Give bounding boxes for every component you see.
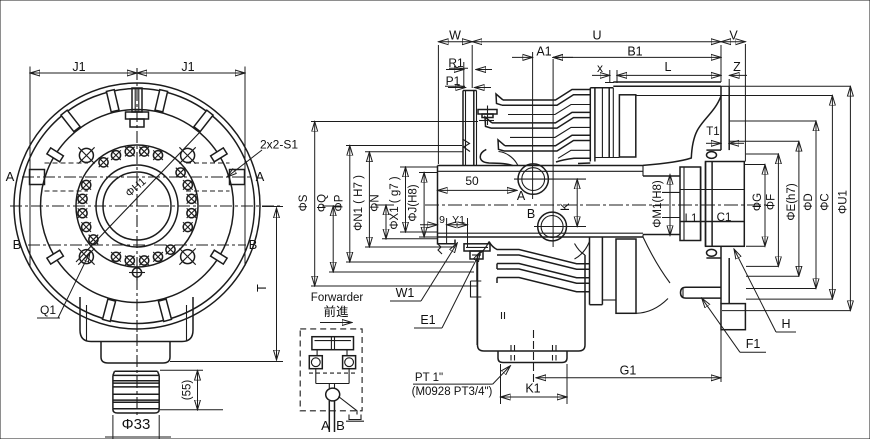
- leader H: [734, 249, 796, 332]
- leader F1: [702, 298, 766, 352]
- lower plate 3: [497, 278, 590, 292]
- J1 extension lines: [30, 67, 245, 267]
- dimension W: [438, 28, 472, 42]
- pin F1: [681, 287, 722, 298]
- pedestal inner walls: [87, 305, 187, 342]
- dimension T1: [706, 126, 744, 143]
- shaft centerline: [136, 334, 138, 418]
- dimension PhiN1 ( H7 ): [353, 152, 463, 247]
- svg-text:前進: 前進: [323, 304, 349, 319]
- svg-text:ΦG: ΦG: [752, 193, 764, 211]
- dimension PhiN: [370, 194, 438, 239]
- dimension PhiF: [746, 154, 778, 266]
- label PhiH1: [123, 176, 148, 200]
- dimension 50: [438, 174, 518, 190]
- dimension Z: [729, 60, 747, 75]
- nose boss 1: [480, 149, 512, 165]
- svg-text:A1: A1: [536, 44, 551, 58]
- svg-text:W1: W1: [396, 286, 415, 300]
- section line B-B: [28, 244, 246, 246]
- bracket plate lower: [721, 247, 729, 304]
- cylinder stems: [317, 350, 347, 356]
- dimension V: [721, 28, 745, 42]
- svg-text:J1: J1: [72, 60, 85, 74]
- port centerlines: [514, 59, 586, 247]
- svg-text:W: W: [449, 28, 461, 42]
- leader E1: [414, 252, 480, 328]
- tank branch: [339, 397, 365, 422]
- front view vertical centerline: [136, 68, 138, 334]
- ext line W left: [437, 45, 439, 164]
- valve drains: [316, 369, 349, 384]
- svg-text:Φ33: Φ33: [122, 416, 151, 433]
- dimension PhiE(h7): [729, 141, 799, 276]
- svg-text:Forwarder: Forwarder: [311, 292, 364, 304]
- left side pad: [30, 163, 89, 191]
- dimension PhiP: [333, 146, 474, 263]
- dimension P1: [445, 74, 491, 88]
- sprocket plate 1: [496, 90, 590, 106]
- coupling thin ring: [701, 162, 706, 247]
- left cover plates: [463, 91, 477, 166]
- svg-text:V: V: [729, 28, 738, 42]
- dimension K: [558, 179, 577, 226]
- sprocket plate 4: [556, 158, 590, 163]
- spindle band outline: [438, 166, 644, 238]
- port ticks: [511, 345, 556, 361]
- svg-text:B1: B1: [627, 44, 642, 58]
- svg-text:F1: F1: [746, 337, 761, 351]
- side view axis centerline: [425, 204, 770, 206]
- shuttle lines: [329, 384, 334, 389]
- svg-text:Q1: Q1: [40, 303, 56, 317]
- valve block centerline: [533, 330, 535, 385]
- diagonal crossed holes: [78, 147, 195, 264]
- svg-text:2x2-S1: 2x2-S1: [260, 138, 298, 152]
- bleed fitting: [478, 106, 497, 126]
- svg-text:ΦQ: ΦQ: [317, 194, 329, 212]
- pad rib at 58 deg: [211, 148, 228, 162]
- svg-text:ΦU1: ΦU1: [837, 190, 849, 214]
- svg-text:ΦC: ΦC: [819, 193, 831, 210]
- svg-text:A: A: [6, 169, 15, 184]
- sprocket plate 2: [485, 112, 590, 128]
- bracket plate ext: [720, 330, 722, 382]
- sprocket inner details: [508, 105, 590, 159]
- svg-text:E1: E1: [420, 313, 435, 327]
- dimension x: [592, 61, 617, 83]
- dimension B1: [553, 44, 721, 58]
- label B left: [13, 237, 22, 252]
- shaft: [113, 371, 159, 413]
- lower housing left wall: [471, 259, 482, 345]
- valve square B: [343, 356, 356, 369]
- svg-text:ΦF: ΦF: [765, 194, 777, 210]
- svg-text:50: 50: [465, 174, 479, 188]
- rib at -38 deg: [61, 110, 80, 131]
- drum bore lines: [680, 190, 744, 222]
- svg-text:Z: Z: [733, 60, 741, 74]
- nose boss 2: [499, 152, 519, 166]
- upper roller: [707, 152, 717, 159]
- svg-text:K1: K1: [525, 382, 540, 396]
- pedestal block: [101, 342, 170, 364]
- valve square A: [309, 356, 322, 369]
- pedestal body: [80, 297, 193, 342]
- dimension 9 Y1: [420, 214, 468, 247]
- valve lower block: [498, 351, 567, 363]
- svg-text:ΦX1 ( g7 ): ΦX1 ( g7 ): [389, 176, 401, 229]
- bracket plate upper: [706, 86, 729, 150]
- weld tick: [502, 312, 505, 319]
- dimension PhiS: [298, 122, 478, 287]
- svg-text:U: U: [592, 28, 601, 42]
- bore diameter line: [76, 132, 200, 262]
- svg-text:A: A: [321, 418, 330, 433]
- dimension PhiM1: [652, 175, 670, 236]
- schematic dashed box: [300, 329, 362, 411]
- leader W1: [390, 243, 457, 301]
- rib at 38 deg: [194, 110, 213, 131]
- svg-text:A: A: [517, 189, 526, 203]
- valve block shoulders: [478, 242, 586, 256]
- dimension A1: [512, 44, 573, 59]
- dimension J1 right: [137, 60, 245, 74]
- drum C1: [706, 162, 745, 247]
- dimension G1: [536, 364, 721, 378]
- dimension PhiC: [636, 96, 833, 300]
- lower roller: [706, 249, 721, 258]
- front view outer flange circles: [14, 83, 260, 329]
- lower rim block: [616, 239, 636, 313]
- svg-text:ΦS: ΦS: [298, 194, 310, 211]
- svg-text:K: K: [558, 203, 572, 211]
- dimension Phi33: [105, 415, 171, 439]
- svg-text:C1: C1: [717, 212, 732, 224]
- lower housing curve: [636, 237, 670, 313]
- valve block: [478, 255, 586, 351]
- bracket foot: [721, 304, 745, 330]
- front view center bore: [96, 165, 178, 247]
- svg-text:9: 9: [439, 214, 445, 226]
- pad rib at -122 deg: [47, 250, 64, 264]
- lines A B: [329, 401, 334, 432]
- svg-text:B: B: [336, 418, 345, 433]
- dimension J1 left: [30, 60, 137, 74]
- left retainer step: [438, 237, 456, 254]
- dimension PhiQ: [317, 194, 474, 272]
- svg-text:B: B: [249, 237, 258, 252]
- lower rim plates: [590, 237, 617, 305]
- front view horizontal centerline: [10, 205, 281, 207]
- svg-text:Y1: Y1: [452, 214, 465, 226]
- forward arrow: [320, 322, 352, 324]
- dimension K1: [501, 364, 568, 404]
- top stem fitting: [126, 88, 149, 127]
- svg-text:G1: G1: [620, 364, 637, 378]
- svg-text:ΦN: ΦN: [370, 194, 382, 211]
- pad rib at -58 deg: [47, 148, 64, 162]
- dimension PhiX1 ( g7 ): [389, 167, 437, 232]
- svg-text:ΦN1 ( H7 ): ΦN1 ( H7 ): [353, 175, 365, 231]
- front view spigot circle: [76, 145, 198, 267]
- svg-text:T: T: [255, 284, 269, 292]
- label 2x2-S1: [227, 138, 298, 178]
- right side pad: [186, 163, 245, 191]
- svg-text:ΦP: ΦP: [333, 194, 345, 211]
- dimension L: [617, 60, 721, 75]
- svg-text:ΦD: ΦD: [803, 193, 815, 210]
- label C1: [717, 212, 732, 224]
- frame rails: [613, 82, 721, 86]
- dimension PhiU1: [722, 86, 850, 310]
- label qianjin: [323, 304, 349, 319]
- rib at 165 deg: [158, 299, 171, 321]
- svg-text:H: H: [781, 317, 790, 331]
- lower plate 1: [489, 242, 590, 270]
- sprocket rim block: [619, 95, 635, 157]
- brake cylinder: [312, 337, 354, 350]
- pilot dashed line: [309, 372, 356, 374]
- ext line W right: [471, 45, 473, 88]
- drain fitting: [464, 244, 490, 281]
- label A right: [256, 169, 265, 184]
- dimension PhiJ(H8): [408, 173, 437, 238]
- label Q1: [37, 252, 90, 318]
- dimension PhiG: [744, 165, 765, 247]
- spindle bore lines: [643, 166, 680, 238]
- label Forwarder: [311, 292, 364, 304]
- svg-text:ΦJ(H8): ΦJ(H8): [408, 184, 420, 221]
- label L1: [685, 213, 698, 225]
- dimension (55): [160, 370, 223, 410]
- svg-text:T1: T1: [706, 126, 719, 138]
- drum right face ext: [744, 44, 746, 162]
- svg-text:x: x: [597, 61, 603, 75]
- svg-text:(55): (55): [182, 380, 194, 401]
- rib at 195 deg: [103, 299, 116, 321]
- svg-text:ΦH1: ΦH1: [123, 176, 148, 200]
- section line A-A: [22, 176, 252, 178]
- port A: [517, 164, 549, 203]
- pad rib at 122 deg: [211, 250, 228, 264]
- dimension PhiD: [729, 121, 816, 289]
- svg-text:J1: J1: [181, 60, 194, 74]
- bolt circle holes 2x2-S1: [78, 147, 197, 266]
- svg-text:L: L: [665, 60, 672, 74]
- coupling ring L1: [680, 167, 701, 241]
- svg-text:ΦM1(H8): ΦM1(H8): [652, 180, 664, 228]
- label A left: [6, 169, 15, 184]
- dimension R1: [446, 56, 492, 88]
- label A B: [321, 418, 345, 433]
- svg-text:(M0928 PT3/4"): (M0928 PT3/4"): [412, 386, 493, 398]
- lower plate 2: [497, 264, 590, 284]
- sprocket plate 3: [498, 135, 590, 151]
- svg-text:B: B: [13, 237, 22, 252]
- sprocket rim plates: [590, 88, 619, 162]
- label B right: [249, 237, 258, 252]
- svg-text:L1: L1: [685, 213, 698, 225]
- ext line bracket top: [721, 45, 729, 86]
- rib at -13 deg: [106, 90, 119, 112]
- rib at 13 deg: [155, 90, 168, 112]
- label PT1: [412, 366, 511, 398]
- svg-text:A: A: [256, 169, 265, 184]
- bracket fillet: [643, 96, 721, 165]
- svg-text:PT 1": PT 1": [415, 372, 443, 384]
- front view plate circle: [41, 110, 234, 303]
- break mark: [463, 139, 471, 152]
- port B: [527, 207, 567, 241]
- dimension U: [472, 28, 721, 42]
- svg-text:B: B: [527, 207, 535, 221]
- dimension T: [170, 207, 283, 362]
- svg-text:ΦE(h7): ΦE(h7): [786, 183, 798, 220]
- bottom plus hole: [129, 265, 145, 281]
- lower shoulder curve: [575, 242, 590, 260]
- spindle band inner lines: [438, 171, 644, 233]
- pump circle: [326, 388, 340, 401]
